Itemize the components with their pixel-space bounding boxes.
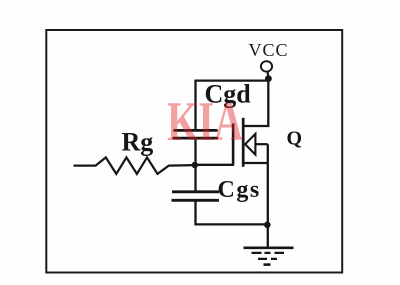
VCC terminal (261, 61, 272, 71)
wire: Cgd bottom plate to gate node (194, 138, 196, 165)
ground (244, 248, 294, 265)
node: gate junction (192, 162, 198, 168)
label Cgd (205, 80, 252, 109)
source stub (244, 162, 268, 164)
capacitor Cgs (172, 192, 220, 201)
svg-text:Q: Q (287, 128, 303, 150)
channel bar (242, 118, 245, 167)
capacitor Cgd (173, 130, 219, 138)
label Cgs (218, 177, 261, 203)
border frame (decorative) (46, 30, 342, 273)
wire: Cgs bottom plate to source (196, 200, 268, 224)
label Rg (122, 128, 154, 157)
node: drain junction (265, 75, 272, 82)
svg-text:Cgs: Cgs (218, 177, 261, 203)
svg-text:VCC: VCC (249, 40, 289, 60)
wire: gate node to Cgs top plate (194, 165, 196, 191)
wire: gate (195, 164, 234, 166)
body line (255, 143, 267, 145)
drain stub (244, 79, 268, 126)
svg-text:KIA: KIA (167, 91, 243, 153)
label VCC (249, 40, 289, 60)
node: source junction (264, 222, 271, 229)
body arrow (245, 134, 255, 155)
wire: VCC node to Cgd top plate (196, 79, 269, 130)
gate bar (232, 124, 235, 165)
wire: source down to ground (267, 144, 269, 248)
svg-text:Rg: Rg (122, 128, 154, 157)
resistor Rg (74, 157, 195, 174)
label Q (287, 128, 303, 150)
wire: VCC stub (267, 72, 270, 78)
transistor Q (N-MOSFET) (233, 79, 268, 167)
